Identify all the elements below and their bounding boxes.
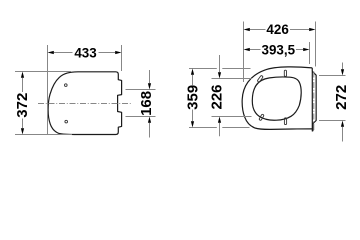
extension line 426 left / 393,5 left [243,22,245,83]
bumper hole top [65,84,68,87]
svg-text:226: 226 [208,84,225,109]
centerline left view [38,103,131,105]
bumper slot B (top-right, vertical) [284,70,286,76]
dimension line 393,5 [250,49,261,51]
inner opening [252,77,301,120]
dimension line 433 [54,52,73,54]
extension line 168 bottom [126,116,156,118]
svg-text:426: 426 [266,22,288,37]
extension line 272 top [319,75,346,77]
extension line 372 bottom [15,134,72,136]
arrow 226 bottom [218,117,221,123]
arrow 433 right [115,51,121,54]
dimension line 272 upper shaft [342,63,344,70]
bumper slot C (bottom-left, slanted) [259,114,264,121]
extension line 226 top [212,78,252,80]
arrow 272 top [341,69,344,75]
dimension line 226 lower shaft [219,123,221,136]
bumper hole bottom [65,120,68,123]
svg-text:372: 372 [14,93,31,118]
arrow 226 top [218,72,221,78]
bumper slot D (bottom-right, vertical) [284,118,286,125]
dimension line 168 upper shaft [149,70,151,83]
arrow 433 left [48,51,54,54]
extension line 168 top [126,89,156,91]
arrow 393,5 right [303,48,309,51]
bumper slot A (top-left, slanted) [257,75,263,82]
dimension line 426 [250,29,266,31]
seat outline left view [48,72,122,135]
svg-text:168: 168 [138,91,155,116]
arrow 359 top [191,69,194,75]
arrow 272 bottom [341,121,344,127]
dimension line 359 [192,75,194,85]
dimension line 272 lower shaft [342,127,344,142]
arrow 426 left [244,28,250,31]
hinge bar centerline [313,72,315,131]
dimension line 168 lower shaft [149,123,151,138]
extension line 426 right [315,22,317,67]
svg-text:433: 433 [74,45,96,60]
arrow 426 right [309,28,315,31]
svg-text:393,5: 393,5 [262,43,296,58]
extension line 359 bottom [189,127,217,129]
svg-text:272: 272 [333,85,350,110]
extension line 272 bottom [319,120,346,122]
dimension line 226 upper shaft [219,55,221,72]
extension line 433 right [121,45,123,71]
dimension line 372 [22,78,24,92]
outer ring outline [242,67,312,130]
extension line 433 left [47,45,49,135]
arrow 372 top [21,72,24,78]
extension line 226 bottom [212,116,252,118]
arrow 372 bottom [21,128,24,134]
extension line 393,5 right [309,42,311,64]
extension line 372 top [15,71,71,73]
extension line 359 top [189,68,217,70]
arrow 168 bottom [148,117,151,123]
arrow 393,5 left [244,48,250,51]
arrow 359 bottom [191,121,194,127]
arrow 168 top [148,83,151,89]
hinge bar right profile [312,68,316,131]
svg-text:359: 359 [184,85,201,110]
